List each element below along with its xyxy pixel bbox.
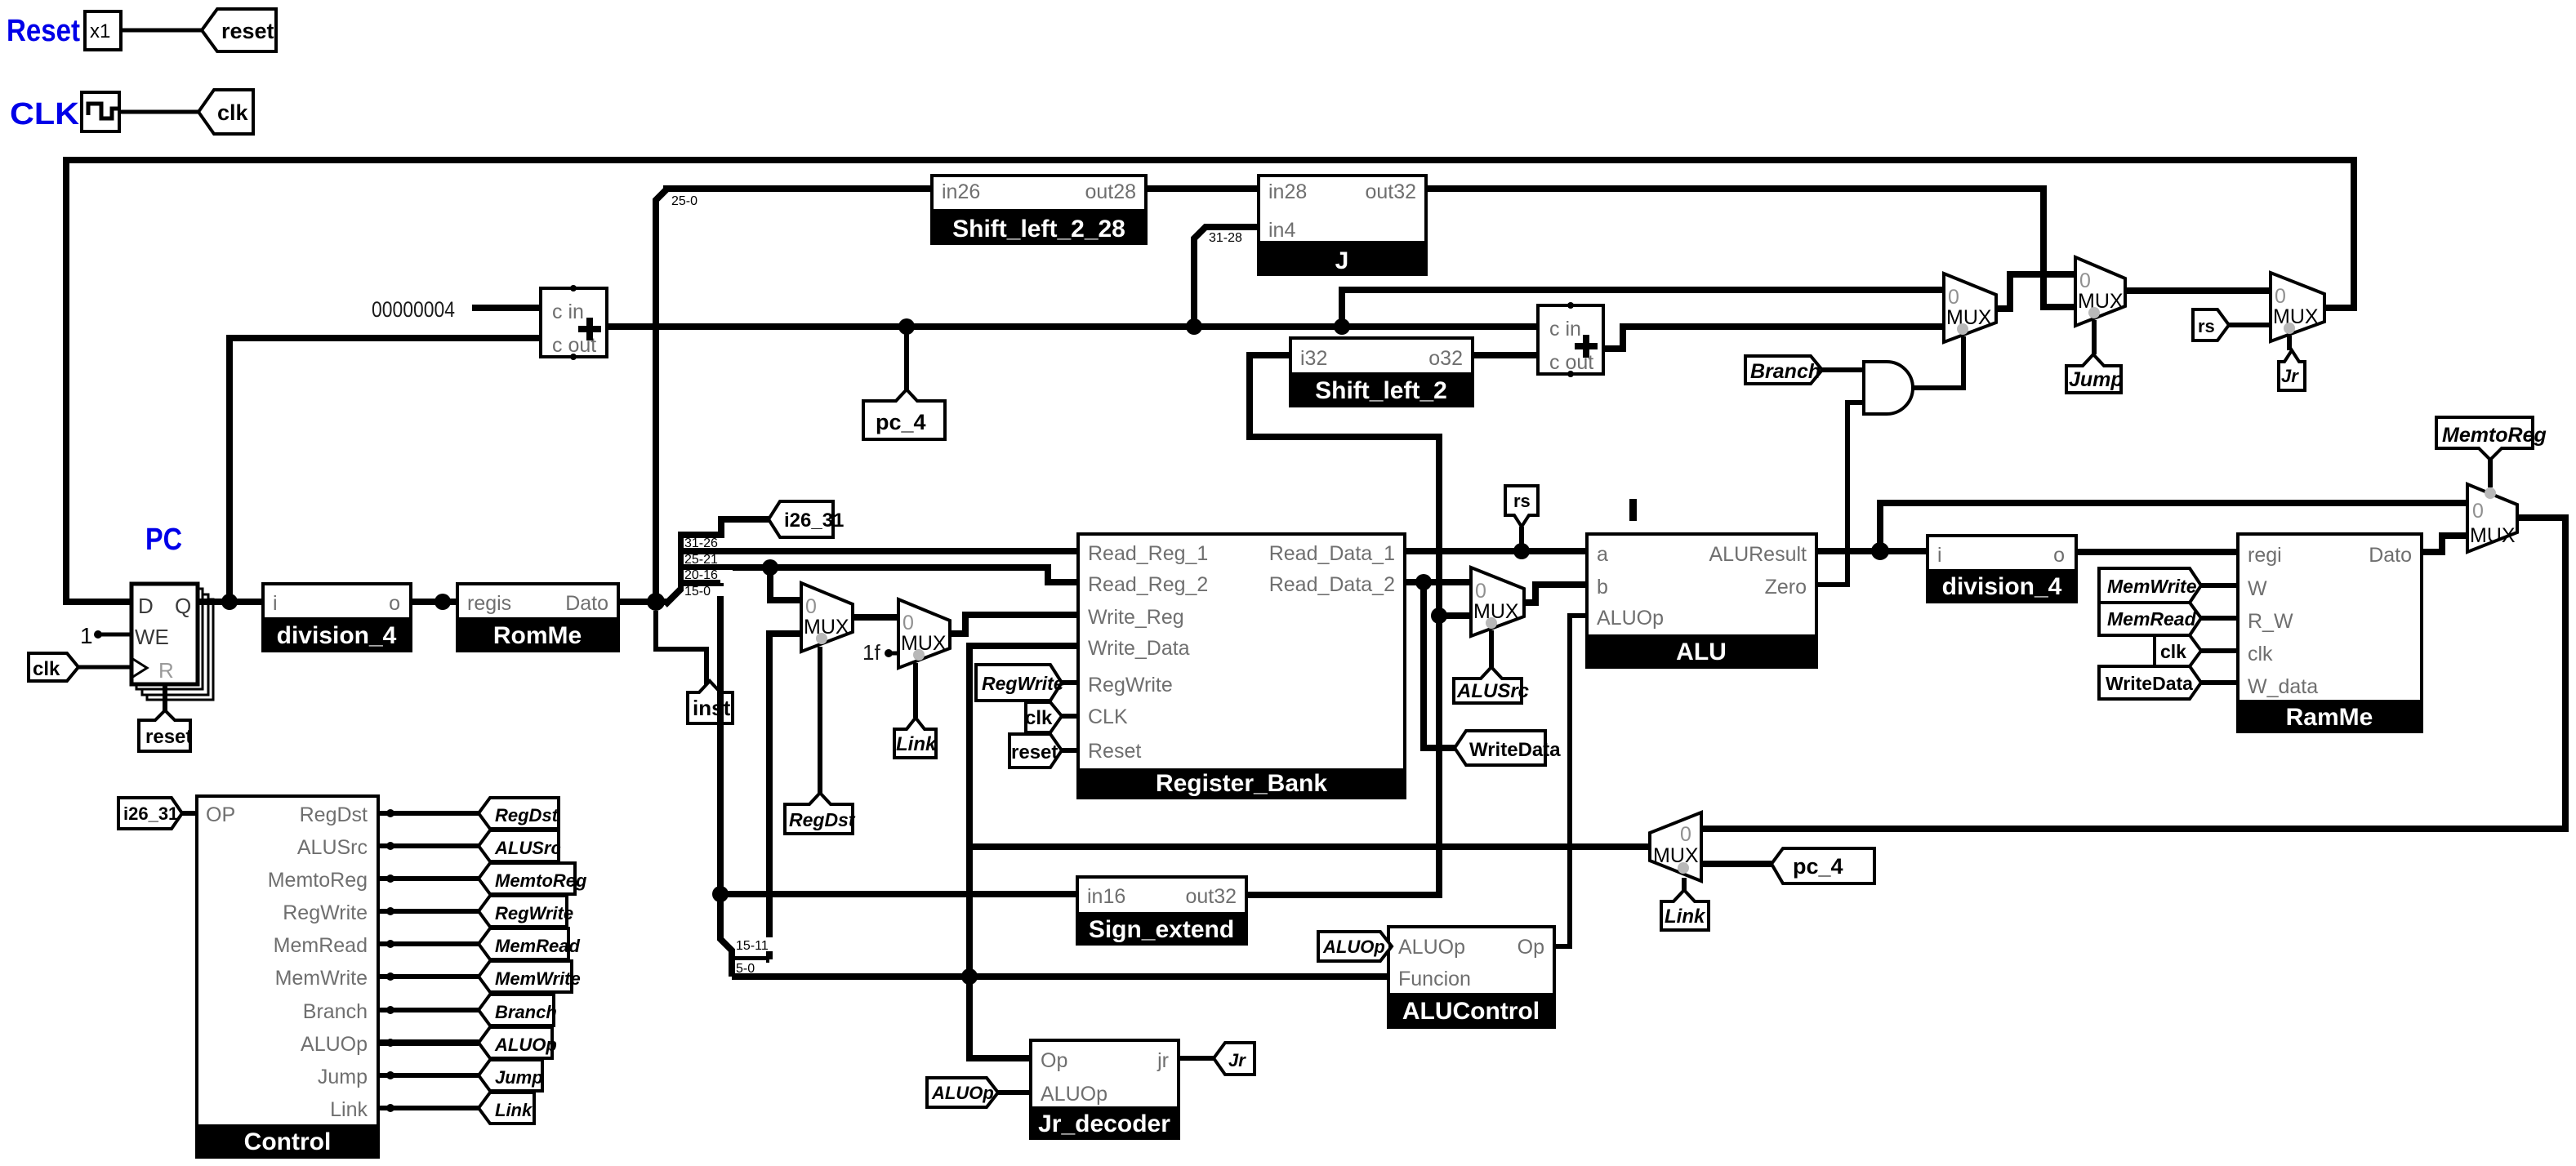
junction at PC Q output (221, 594, 238, 610)
svg-text:MemtoReg: MemtoReg (495, 870, 587, 891)
svg-text:in26: in26 (942, 180, 980, 203)
svg-text:Funcion: Funcion (1398, 968, 1471, 990)
svg-text:division_4: division_4 (277, 622, 397, 649)
svg-text:c in: c in (1549, 318, 1581, 340)
svg-text:Reset: Reset (7, 14, 80, 48)
svg-text:i32: i32 (1300, 347, 1327, 370)
net flag ALUSrc (control out) (479, 830, 561, 861)
svg-text:W_data: W_data (2248, 675, 2318, 698)
svg-text:25-0: 25-0 (671, 194, 697, 208)
svg-text:reset: reset (1011, 741, 1058, 763)
component ALUControl (1387, 927, 1556, 1027)
svg-text:Branch: Branch (303, 1000, 368, 1023)
junction ALUResult (1871, 542, 1889, 560)
svg-text:R: R (158, 658, 174, 683)
svg-text:0: 0 (805, 595, 817, 618)
svg-text:Op: Op (1041, 1049, 1067, 1072)
wire RegDst mux out to 1f mux in0 (853, 614, 898, 621)
wire rs tag stub (1519, 527, 1524, 551)
svg-text:MemRead: MemRead (495, 936, 580, 956)
svg-text:MUX: MUX (901, 632, 947, 655)
wire PC Q to division_4 (198, 599, 263, 605)
wire ALUSrc select (1489, 630, 1494, 667)
svg-text:W: W (2248, 577, 2267, 600)
net flag rs (above ALU) (1505, 486, 1538, 527)
svg-text:pc_4: pc_4 (1793, 854, 1843, 879)
wire Branch to AND (1822, 367, 1864, 372)
net flag i26_31 (into Control) (118, 798, 182, 829)
svg-text:MUX: MUX (2078, 290, 2124, 313)
svg-text:regis: regis (467, 592, 511, 615)
net flag ALUSrc (below mux) (1454, 667, 1529, 703)
net flag rs (right) (2193, 309, 2229, 340)
svg-text:RomMe: RomMe (493, 622, 582, 649)
junction 25-21 tap (762, 559, 778, 576)
svg-text:ALU: ALU (1676, 639, 1727, 665)
junction J in4 tap (1186, 318, 1202, 335)
net flag WriteData (into RamMe) (2099, 666, 2201, 699)
svg-text:i: i (1937, 544, 1942, 567)
component Shift_left_2_28 (930, 176, 1148, 245)
svg-text:Control: Control (244, 1128, 332, 1155)
component Sign_extend (1076, 877, 1248, 944)
svg-text:reset: reset (221, 19, 274, 43)
net flag Jump (control out) (479, 1060, 543, 1091)
svg-text:1: 1 (80, 623, 93, 648)
wire ALUResult to MemtoReg mux in0 (1880, 503, 2467, 551)
net flag MemRead (into RamMe) (2099, 603, 2201, 635)
svg-text:clk: clk (2248, 643, 2273, 665)
wire ALUResult to division_4 (1816, 548, 1928, 554)
wire mirrored mux out to Write_Data loop (969, 843, 1650, 850)
wire ALUOp flag stub (1388, 944, 1392, 949)
net flag Link (control out) (479, 1093, 534, 1124)
AND gate (branch and zero) (1864, 362, 1913, 414)
wire reset source to reset flag (121, 29, 202, 33)
svg-text:Reset: Reset (1088, 740, 1141, 763)
net flag clk into PC (29, 653, 131, 681)
wire 20-16 field into Sign_extend (720, 891, 1077, 897)
svg-text:MUX: MUX (1473, 600, 1519, 623)
adder2 (branch target) (1538, 302, 1603, 377)
junction RomMe Dato (647, 593, 665, 611)
svg-text:rs: rs (2198, 316, 2215, 336)
wire Write_Data loop from lower mux (969, 646, 1078, 1058)
net flag Branch (1745, 356, 1822, 384)
svg-text:R_W: R_W (2248, 610, 2293, 633)
svg-text:Read_Reg_2: Read_Reg_2 (1088, 573, 1208, 596)
svg-text:MUX: MUX (2470, 524, 2516, 547)
wire i26_31 to OP (182, 811, 197, 816)
svg-text:Read_Data_1: Read_Data_1 (1269, 542, 1395, 565)
net flag Link (bottom right) (1661, 890, 1709, 930)
svg-text:ALUSrc: ALUSrc (1456, 680, 1529, 702)
svg-text:31-28: 31-28 (1209, 231, 1242, 245)
svg-text:jr: jr (1157, 1049, 1169, 1072)
wire 15-11 link to RegDst mux in1 (732, 634, 801, 959)
wire PC feedback top loop (66, 160, 2354, 602)
wire RegDst mux select (818, 647, 822, 794)
wire ALUSrc mux out to ALU b (1524, 585, 1587, 603)
mux result/pc_4 (mirrored) (1650, 812, 1701, 881)
svg-text:RegDst: RegDst (495, 805, 559, 826)
wire bus 31-26 to Read_Reg_1 (681, 548, 1078, 554)
net flag ALUOp (into Jr_decoder) (927, 1078, 998, 1107)
wire Shift_left_2_28 out28 to J in28 (1146, 185, 1259, 192)
svg-text:MUX: MUX (1946, 306, 1992, 329)
svg-text:in16: in16 (1087, 885, 1125, 908)
wire MUX3 out to top loop (2324, 160, 2354, 308)
svg-text:Write_Data: Write_Data (1088, 637, 1190, 660)
svg-text:b: b (1597, 576, 1608, 599)
net flag reset (top-left) (202, 9, 276, 51)
svg-text:31-26: 31-26 (684, 536, 718, 550)
svg-text:RegWrite: RegWrite (283, 901, 368, 924)
wire MUX2 select from Jump (2092, 320, 2097, 354)
svg-text:reset: reset (145, 726, 192, 748)
net flag Jr (top right) (2279, 350, 2305, 390)
wire pc_4 into mirrored mux in1 (1701, 861, 1772, 867)
svg-text:Link: Link (495, 1100, 533, 1120)
wire constant to adder1 (472, 305, 541, 311)
svg-text:MemRead: MemRead (274, 934, 368, 957)
wire reset to port (1062, 748, 1078, 753)
svg-text:Sign_extend: Sign_extend (1089, 916, 1234, 943)
svg-text:clk: clk (33, 658, 60, 680)
svg-text:ALUOp: ALUOp (494, 1035, 557, 1055)
wire J in4 riser with 31-28 jog (1194, 227, 1259, 327)
component Register_Bank (1076, 534, 1406, 798)
junction sign-extend tap (712, 886, 729, 902)
svg-text:MemRead: MemRead (2107, 608, 2197, 630)
wire adder2 out to branch mux in1 (1603, 327, 1944, 349)
wire mirrored mux select (1682, 878, 1687, 890)
wire funct 5-0 line to ALUControl (732, 973, 1388, 980)
net flag WriteData (left) (1455, 731, 1561, 765)
svg-text:Op: Op (1518, 936, 1544, 959)
svg-text:o: o (389, 592, 400, 615)
wire Shift_left_2 o32 to adder2 (1473, 352, 1538, 358)
wire PC reset stub (163, 684, 167, 712)
svg-text:Zero: Zero (1765, 576, 1807, 599)
wire division_4 o to RamMe regi (2076, 549, 2238, 555)
net flag Jr (by Jr_decoder) (1214, 1043, 1255, 1075)
wire jr out to Jr flag (1179, 1056, 1214, 1061)
svg-text:CLK: CLK (1088, 705, 1128, 728)
svg-text:J: J (1335, 247, 1349, 274)
input source Reset (x1 box) (85, 11, 121, 50)
svg-text:15-0: 15-0 (684, 585, 711, 599)
svg-text:Link: Link (330, 1098, 368, 1121)
net flag pc_4 (bottom) (1772, 848, 1874, 883)
wire Read_Data_2 to ALUSrc mux in0 (1405, 579, 1471, 585)
svg-text:MUX: MUX (1653, 844, 1699, 867)
svg-text:Shift_left_2_28: Shift_left_2_28 (952, 216, 1125, 243)
svg-text:pc_4: pc_4 (876, 410, 926, 434)
wire RomMe Dato output (618, 599, 666, 605)
wire sign-extend net (imm) riser and links (1246, 355, 1439, 895)
svg-text:WriteData: WriteData (1469, 739, 1561, 761)
svg-text:0: 0 (2079, 269, 2091, 292)
wire pc+4 to branch mux in0 (1342, 290, 1944, 327)
component RomMe (instruction ROM) (456, 584, 620, 651)
wire clk to RamMe (2201, 648, 2238, 653)
net flag ALUOp (control out) (479, 1027, 557, 1058)
mux MemtoReg (flipped) (2467, 484, 2517, 552)
svg-text:ALUOp: ALUOp (931, 1083, 994, 1103)
svg-text:i26_31: i26_31 (784, 510, 844, 532)
input source CLK (clock box) (82, 92, 119, 131)
svg-text:Jr: Jr (1228, 1050, 1246, 1070)
wire 1f mux out to Write_Reg (950, 615, 1078, 634)
labels 15-11 and 5-0 (735, 937, 778, 976)
svg-text:c in: c in (552, 300, 584, 323)
wire ALU ALUOp input riser (1554, 616, 1587, 946)
svg-text:ALUOp: ALUOp (1597, 607, 1664, 630)
net flag MemtoReg (control out) (479, 863, 587, 894)
wire inst tag drop (656, 611, 706, 692)
wire division_4 to RomMe (411, 599, 457, 605)
wire instruction bus riser to 25-0 tap (656, 189, 932, 602)
svg-text:RegDst: RegDst (789, 809, 856, 830)
net flag ALUOp (into ALUControl) (1318, 932, 1392, 961)
component J (jump address) (1257, 176, 1428, 276)
svg-text:ALUSrc: ALUSrc (494, 838, 561, 858)
net flag MemRead (control out) (479, 928, 580, 959)
net flag i26_31 (to register bank area) (769, 501, 844, 537)
svg-text:Register_Bank: Register_Bank (1156, 770, 1327, 797)
svg-text:MUX: MUX (804, 616, 849, 639)
svg-text:20-16: 20-16 (684, 568, 718, 582)
svg-text:clk: clk (1025, 707, 1053, 729)
junction funct line (961, 968, 978, 985)
wire rs to MUX3 in1 (2229, 323, 2271, 327)
component RamMe (data memory) (2236, 534, 2423, 732)
junction Read_Data_2 tap (1415, 574, 1432, 590)
wire pc+4 net (607, 323, 1538, 330)
junction ALUSrc in1 tap (1431, 607, 1447, 624)
component Shift_left_2 (1289, 338, 1474, 406)
svg-text:0: 0 (902, 612, 914, 634)
mux MUX3 (jr) (2271, 273, 2324, 341)
svg-text:15-11: 15-11 (736, 939, 769, 953)
svg-text:0: 0 (2472, 500, 2484, 523)
wire bit-split fan riser (665, 519, 769, 605)
wire clk to port (1062, 714, 1078, 719)
net flag inst (688, 681, 733, 723)
control output wires (378, 809, 479, 1112)
label 31-28 (1208, 230, 1252, 245)
wire MemtoReg select (2488, 460, 2493, 487)
constant 1f (862, 640, 898, 665)
svg-text:clk: clk (217, 100, 249, 125)
wire MUX3 select from Jr (2287, 336, 2292, 350)
mux MUX1 (branch) (1944, 274, 1996, 342)
wire MemRead to R_W (2201, 616, 2238, 621)
svg-text:out32: out32 (1185, 885, 1237, 908)
svg-text:ALUOp: ALUOp (301, 1033, 368, 1056)
net flag MemWrite (into RamMe) (2099, 568, 2201, 603)
svg-text:MemWrite: MemWrite (495, 968, 581, 989)
svg-text:ALUSrc: ALUSrc (297, 836, 368, 859)
svg-text:WriteData: WriteData (2106, 673, 2193, 694)
svg-text:out32: out32 (1365, 180, 1416, 203)
svg-text:Branch: Branch (495, 1002, 557, 1022)
junction rs tap (1513, 543, 1530, 559)
net flag reset (into register bank) (1009, 734, 1062, 768)
svg-text:MemWrite: MemWrite (275, 967, 368, 990)
svg-text:RegWrite: RegWrite (982, 673, 1064, 694)
wire MemtoReg mux out right loop down (1701, 518, 2565, 829)
svg-text:inst: inst (693, 696, 731, 720)
mux MUX2 (jump) (2075, 257, 2125, 326)
wire Read_Data_2 down to WriteData flag (1424, 582, 1455, 748)
wire pc_4 tag drop (904, 327, 909, 393)
svg-text:RamMe: RamMe (2286, 704, 2373, 731)
svg-text:o32: o32 (1428, 347, 1463, 370)
svg-text:Jr_decoder: Jr_decoder (1038, 1110, 1170, 1137)
svg-text:Dato: Dato (565, 592, 608, 615)
wire imm to ALUSrc in1 (1439, 612, 1471, 619)
wire Zero to AND (1816, 403, 1864, 585)
svg-text:0: 0 (2275, 285, 2286, 308)
svg-text:Q: Q (175, 594, 191, 618)
svg-text:ALUControl: ALUControl (1402, 998, 1540, 1025)
svg-text:Jump: Jump (318, 1066, 368, 1088)
net flag RegWrite (control out) (479, 896, 573, 927)
svg-text:Read_Reg_1: Read_Reg_1 (1088, 542, 1208, 565)
svg-text:ALUOp: ALUOp (1398, 936, 1465, 959)
svg-text:Jump: Jump (2069, 368, 2124, 391)
svg-text:i: i (273, 592, 278, 615)
svg-text:MemtoReg: MemtoReg (268, 869, 368, 892)
junction pc_4 tag tap (898, 318, 915, 335)
component Jr_decoder (1029, 1040, 1180, 1138)
svg-text:MemtoReg: MemtoReg (2442, 424, 2547, 447)
net flag reset under PC (139, 710, 192, 751)
svg-text:RegDst: RegDst (300, 803, 368, 826)
net flag MemWrite (control out) (479, 961, 581, 992)
svg-text:Jump: Jump (495, 1067, 543, 1088)
svg-text:ALUOp: ALUOp (1041, 1083, 1108, 1106)
wire RegWrite to port (1062, 680, 1078, 685)
mux RegDst (write reg select) (801, 583, 853, 652)
wire MemWrite to W (2201, 583, 2238, 588)
wire bus 20-16 down long riser (681, 583, 732, 977)
net flag RegDst (control out) (479, 798, 559, 829)
net flag Link (below 1f mux) (894, 718, 938, 758)
net flag pc_4 (upper) (863, 389, 945, 439)
svg-text:25-21: 25-21 (684, 553, 718, 567)
svg-text:regi: regi (2248, 544, 2282, 567)
wire riser PC Q to adder1 lower input (230, 338, 541, 602)
svg-text:0: 0 (1680, 823, 1691, 846)
wire 25-21 tap to RegDst mux in0 (770, 567, 801, 600)
label 25-0 (670, 192, 715, 208)
svg-text:Link: Link (1665, 906, 1706, 928)
svg-text:ALUResult: ALUResult (1709, 543, 1807, 566)
svg-text:0: 0 (1475, 580, 1486, 603)
svg-text:in4: in4 (1268, 219, 1295, 242)
label I (instance) (1629, 499, 1637, 521)
svg-text:MemWrite: MemWrite (2107, 576, 2197, 597)
adder1 (PC+4) (541, 285, 607, 360)
component division_4 (PC divider) (261, 584, 412, 651)
wire WriteData to W_data (2201, 680, 2238, 685)
wire bus 25-21 to Read_Reg_2 (681, 567, 1078, 582)
svg-text:1f: 1f (862, 640, 880, 665)
mux 1f (link write reg) (898, 599, 950, 668)
net flag clk (top-left) (198, 90, 253, 134)
svg-text:a: a (1597, 543, 1608, 566)
wire MUX2 out to MUX3 in0 (2125, 287, 2271, 294)
svg-text:Link: Link (896, 733, 938, 755)
svg-text:D: D (138, 594, 154, 618)
wire MUX1 out to jump mux in0 (1996, 274, 2075, 309)
wire 1f mux select (913, 663, 918, 718)
wire Read_Data_1 to ALU a (1405, 548, 1587, 554)
net flag MemtoReg (above mux) (2436, 417, 2547, 460)
svg-text:in28: in28 (1268, 180, 1307, 203)
wire clk source to clk flag (119, 110, 198, 114)
register PC main box (131, 584, 198, 684)
net flag clk (into register bank) (1025, 702, 1062, 732)
svg-text:Branch: Branch (1750, 360, 1821, 383)
svg-text:rs: rs (1513, 491, 1531, 511)
svg-text:ALUOp: ALUOp (1322, 937, 1385, 957)
svg-text:Jr: Jr (2281, 366, 2299, 386)
svg-text:0: 0 (1948, 286, 1959, 309)
component ALU (1585, 534, 1818, 667)
junction branch mux in0 tap (1334, 318, 1350, 335)
svg-text:RegWrite: RegWrite (495, 903, 573, 923)
net flag Branch (control out) (479, 995, 557, 1026)
wire AND out to MUX1 select (1913, 336, 1963, 388)
svg-text:Read_Data_2: Read_Data_2 (1269, 573, 1395, 596)
net flag Jump (2066, 354, 2124, 393)
svg-text:Shift_left_2: Shift_left_2 (1315, 377, 1447, 404)
junction division_4 output (435, 594, 451, 610)
svg-text:WE: WE (135, 625, 169, 649)
svg-text:clk: clk (2160, 641, 2186, 662)
svg-text:RegWrite: RegWrite (1088, 674, 1173, 696)
svg-text:00000004: 00000004 (372, 297, 455, 322)
svg-text:MUX: MUX (2273, 305, 2319, 328)
svg-text:x1: x1 (90, 20, 110, 42)
constant 1 into PC WE (80, 623, 131, 648)
svg-text:o: o (2053, 544, 2065, 567)
svg-text:OP: OP (206, 803, 235, 826)
wire J out32 to jump mux in1 (1426, 189, 2075, 307)
svg-text:i26_31: i26_31 (123, 803, 178, 824)
wire RamMe Dato to MemtoReg mux in1 (2422, 536, 2467, 552)
net flag RegDst (below mux) (785, 793, 856, 834)
net flag clk (into RamMe) (2155, 635, 2201, 666)
register PC (stacked shadows) (136, 589, 213, 700)
wire ALUOp to Jr_decoder (998, 1090, 1031, 1095)
svg-text:division_4: division_4 (1942, 573, 2062, 600)
svg-text:PC: PC (145, 523, 182, 557)
mux ALUSrc (1471, 567, 1524, 636)
svg-text:out28: out28 (1085, 180, 1136, 203)
component Control (195, 796, 380, 1157)
svg-text:Write_Reg: Write_Reg (1088, 606, 1184, 629)
bit field labels 31-26 25-21 20-16 15-0 (684, 536, 733, 599)
net flag RegWrite (into register bank) (976, 665, 1064, 701)
svg-text:Dato: Dato (2369, 544, 2412, 567)
svg-text:CLK: CLK (10, 97, 80, 131)
component division_4 (right) (1926, 536, 2078, 602)
